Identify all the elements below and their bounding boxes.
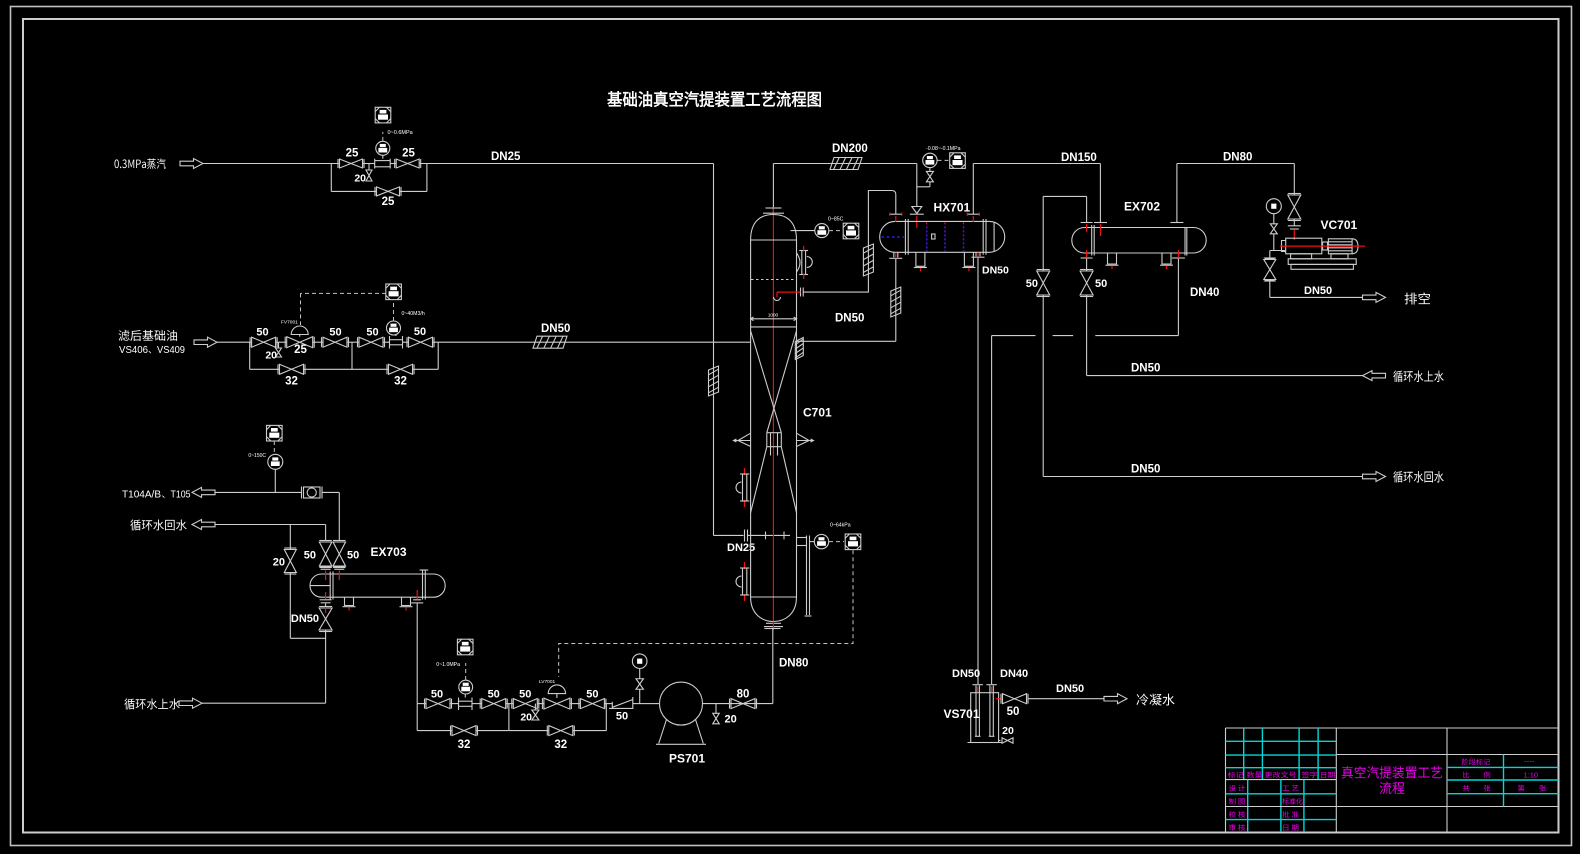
svg-text:25: 25 <box>294 344 307 356</box>
svg-text:C701: C701 <box>803 406 832 420</box>
svg-text:50: 50 <box>347 550 359 562</box>
svg-text:20: 20 <box>725 714 737 726</box>
svg-text:50: 50 <box>586 689 598 701</box>
svg-text:DN50: DN50 <box>1131 464 1160 476</box>
svg-text:0~150C: 0~150C <box>248 453 266 459</box>
svg-text:20: 20 <box>1002 725 1014 737</box>
svg-text:DN50: DN50 <box>982 265 1009 277</box>
svg-text:-0.08~-0.1MPa: -0.08~-0.1MPa <box>926 146 961 152</box>
svg-text:DN50: DN50 <box>1056 683 1084 695</box>
svg-text:1000: 1000 <box>768 313 779 318</box>
svg-text:VS406: VS406 <box>119 344 148 356</box>
svg-text:50: 50 <box>431 689 443 701</box>
svg-text:50: 50 <box>1007 706 1020 718</box>
svg-text:32: 32 <box>285 376 298 388</box>
svg-text:VS701: VS701 <box>944 707 980 721</box>
svg-text:DN50: DN50 <box>1131 363 1160 375</box>
svg-text:DN200: DN200 <box>832 143 868 155</box>
svg-text:DN50: DN50 <box>541 323 570 335</box>
svg-text:DN80: DN80 <box>1223 152 1252 164</box>
svg-text:DN50: DN50 <box>291 613 319 625</box>
svg-text:DN25: DN25 <box>491 151 521 163</box>
svg-text:20: 20 <box>354 173 366 185</box>
svg-text:25: 25 <box>382 196 395 208</box>
svg-text:20: 20 <box>520 712 532 724</box>
svg-text:DN50: DN50 <box>1304 285 1332 297</box>
svg-text:50: 50 <box>366 327 378 339</box>
svg-text:EX702: EX702 <box>1124 200 1160 214</box>
svg-text:50: 50 <box>1095 278 1107 290</box>
svg-text:HX701: HX701 <box>934 201 971 215</box>
svg-text:50: 50 <box>414 326 426 338</box>
svg-text:25: 25 <box>402 148 415 160</box>
svg-text:LV7001: LV7001 <box>539 679 556 685</box>
svg-text:50: 50 <box>616 711 628 723</box>
svg-text:EX703: EX703 <box>371 545 407 559</box>
svg-text:0~85C: 0~85C <box>828 217 844 223</box>
svg-text:DN80: DN80 <box>779 658 808 670</box>
svg-text:50: 50 <box>256 327 268 339</box>
svg-text:80: 80 <box>737 689 750 701</box>
svg-text:32: 32 <box>458 739 471 751</box>
svg-text:VS409: VS409 <box>157 344 185 356</box>
svg-text:20: 20 <box>265 350 277 362</box>
svg-text:FV7001: FV7001 <box>281 320 298 326</box>
svg-text:T105: T105 <box>171 489 191 501</box>
svg-text:DN50: DN50 <box>952 668 980 680</box>
svg-text:----: ---- <box>1524 757 1535 766</box>
svg-text:50: 50 <box>1026 278 1038 290</box>
svg-text:DN50: DN50 <box>835 313 864 325</box>
svg-text:0~0.6MPa: 0~0.6MPa <box>388 130 414 136</box>
svg-text:32: 32 <box>394 376 407 388</box>
svg-text:0~1.0MPa: 0~1.0MPa <box>436 662 460 668</box>
svg-text:PS701: PS701 <box>669 752 705 766</box>
svg-text:25: 25 <box>346 148 359 160</box>
svg-text:0~40M3/h: 0~40M3/h <box>402 311 425 317</box>
svg-text:20: 20 <box>273 557 285 569</box>
svg-text:32: 32 <box>554 739 567 751</box>
svg-text:50: 50 <box>488 689 500 701</box>
svg-text:50: 50 <box>329 327 341 339</box>
svg-text:VC701: VC701 <box>1321 218 1358 232</box>
svg-text:1:10: 1:10 <box>1524 771 1539 780</box>
svg-text:T104A/B: T104A/B <box>122 489 161 501</box>
svg-text:0~64kPa: 0~64kPa <box>830 523 851 529</box>
svg-text:DN150: DN150 <box>1061 152 1097 164</box>
svg-text:50: 50 <box>304 550 316 562</box>
svg-text:DN40: DN40 <box>1190 287 1219 299</box>
svg-text:50: 50 <box>519 689 531 701</box>
svg-text:DN40: DN40 <box>1000 668 1028 680</box>
